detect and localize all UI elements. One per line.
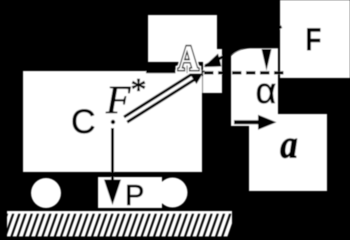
force F line (tail near F box) xyxy=(205,27,282,67)
ground line xyxy=(7,211,232,214)
svg-text:F: F xyxy=(305,22,321,58)
F label patch xyxy=(280,0,350,78)
P label patch xyxy=(98,177,162,208)
point C dot xyxy=(111,120,115,124)
svg-text:A: A xyxy=(178,38,199,78)
svg-text:α: α xyxy=(256,70,277,111)
ground hatching xyxy=(2,213,234,237)
angle alpha arrowhead (down to dashed line) xyxy=(262,49,272,71)
P arrow line xyxy=(111,128,114,182)
svg-text:P: P xyxy=(125,180,144,212)
P arrowhead xyxy=(104,180,121,206)
label patch A box xyxy=(148,15,217,62)
dashed line from A xyxy=(204,71,288,74)
svg-text:a: a xyxy=(280,122,298,167)
wheel right xyxy=(158,178,188,208)
svg-text:C: C xyxy=(71,103,96,141)
a label patch xyxy=(249,114,327,191)
label A (outlined) xyxy=(178,38,199,78)
cart body xyxy=(23,71,202,172)
small patch right of cart xyxy=(203,49,222,93)
F* double line xyxy=(124,72,195,117)
svg-text:F: F xyxy=(105,77,131,122)
F* arrowhead at A xyxy=(189,70,205,84)
wheel left xyxy=(31,178,61,208)
alpha label patch with arc-shaped top xyxy=(231,48,278,126)
svg-text:*: * xyxy=(131,71,147,107)
acceleration a arrow xyxy=(234,120,262,124)
black line along cart top right xyxy=(146,70,203,73)
force F arrowhead at A xyxy=(204,54,222,68)
